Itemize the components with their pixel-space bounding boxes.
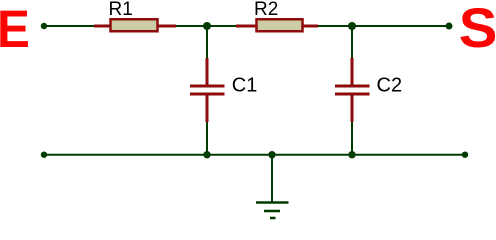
wire: ground rail down to ground symbol: [271, 155, 273, 202]
node C1-ground junction dot: [203, 151, 210, 158]
wire bottom rail (ground rail): [44, 154, 465, 156]
wire: C1 down to bottom rail: [206, 120, 208, 155]
node S terminal dot: [446, 23, 453, 30]
wire top rail: node A to R2: [207, 25, 237, 27]
svg-text:E: E: [0, 0, 30, 58]
wire: node A down to C1: [206, 26, 208, 60]
wire top rail: E terminal to R1: [44, 25, 96, 27]
wire: node B down to C2: [351, 26, 353, 60]
ground: [256, 203, 289, 219]
svg-text:R2: R2: [254, 0, 278, 20]
wire top rail: R1 to node A: [175, 25, 207, 27]
node B junction dot (top, R2/C2): [348, 22, 356, 30]
node bottom-right terminal dot: [462, 152, 468, 158]
node ground junction dot: [268, 151, 275, 158]
svg-text:S: S: [459, 0, 496, 60]
resistor R2: [236, 19, 318, 31]
capacitor C1: [190, 58, 225, 122]
node bottom-left terminal dot: [41, 152, 47, 158]
node E terminal dot: [41, 23, 47, 29]
wire top rail: R2 to node B: [317, 25, 352, 27]
svg-text:R1: R1: [109, 0, 133, 20]
node C2-ground junction dot: [348, 151, 355, 158]
wire: C2 down to bottom rail: [351, 120, 353, 155]
resistor R1: [94, 19, 176, 31]
svg-text:C1: C1: [232, 75, 258, 97]
svg-text:C2: C2: [377, 75, 403, 97]
capacitor C2: [335, 58, 370, 122]
node A junction dot (top, R1/R2/C1): [203, 22, 211, 30]
wire top rail: node B to S terminal: [352, 25, 449, 27]
